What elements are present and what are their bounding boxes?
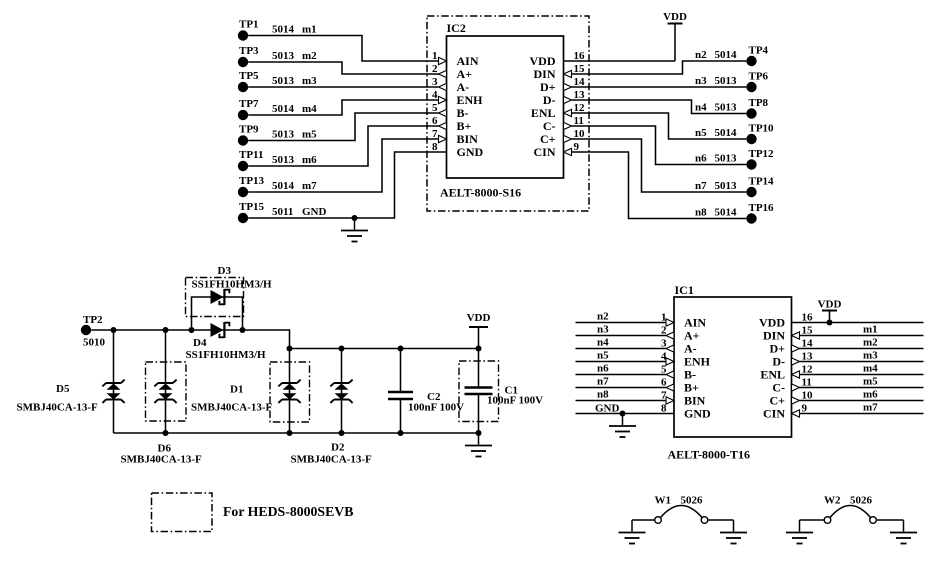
wire VDD rail: [290, 348, 479, 350]
IC2 pin 11 C- (number, arrow, name): [543, 115, 584, 133]
svg-text:TP15: TP15: [239, 201, 265, 213]
junction D1 bottom: [287, 430, 293, 436]
svg-text:TP2: TP2: [83, 314, 103, 326]
wire IC2 pin 16 to VDD: [564, 60, 676, 62]
svg-text:5013: 5013: [715, 75, 738, 87]
svg-text:14: 14: [802, 338, 814, 350]
TVS diode D1 branch wire: [289, 349, 291, 434]
jumper W1 5026: [655, 495, 708, 524]
svg-text:B-: B-: [684, 368, 696, 382]
svg-text:VDD: VDD: [759, 316, 785, 330]
svg-text:SS1FH10HM3/H: SS1FH10HM3/H: [192, 279, 273, 291]
svg-text:D-: D-: [772, 355, 785, 369]
svg-text:5014: 5014: [272, 180, 295, 192]
diode D4 SS1FH10HM3/H: [211, 322, 230, 338]
svg-text:W2: W2: [824, 495, 841, 507]
svg-text:m2: m2: [302, 50, 317, 62]
IC2 pin 6 B+ (number, arrow, name): [432, 115, 472, 133]
net label n6 5013: [695, 153, 737, 165]
IC1 pin 14 D+ (number, arrow, name): [769, 338, 813, 356]
IC2 pin 10 C+ (number, arrow, name): [540, 128, 585, 146]
svg-text:TP13: TP13: [239, 175, 265, 187]
svg-text:3: 3: [661, 338, 667, 350]
wire n7 into IC1 pin 6: [576, 387, 667, 389]
ground symbol below GND wire: [341, 218, 368, 242]
IC1 pin 15 DIN (number, arrow, name): [763, 325, 813, 343]
wire m6: TP11 to IC2 pin 6: [248, 126, 438, 166]
junction on IC1 GND wire: [620, 411, 626, 417]
test point TP2 pad with label 5010: [81, 314, 106, 349]
IC1 pin 11 C- (number, arrow, name): [772, 377, 812, 395]
svg-text:TP4: TP4: [749, 45, 769, 57]
wire W2 left leg: [800, 519, 825, 521]
svg-text:16: 16: [802, 312, 814, 324]
svg-text:9: 9: [802, 403, 808, 415]
wire IC1 pin 16 VDD net: [792, 322, 924, 324]
svg-text:C-: C-: [543, 119, 556, 133]
svg-text:GND: GND: [595, 403, 620, 415]
net label n5 5014: [695, 127, 737, 139]
ground symbol W1 left: [619, 520, 646, 544]
wire m3 from IC1 pin 13: [800, 361, 924, 363]
test point TP5 pad with labels 5013 m3: [238, 70, 317, 92]
IC2 pin 1 AIN (number, arrow, name): [432, 50, 479, 68]
junction VDD tap on pin 16 wire: [827, 320, 833, 326]
test point TP13 pad with labels 5014 m7: [238, 175, 317, 197]
VDD power symbol at IC1: [818, 299, 842, 323]
IC1 pin 16 VDD (number, arrow, name): [759, 312, 813, 330]
svg-text:m1: m1: [302, 23, 317, 35]
svg-text:ENL: ENL: [760, 368, 785, 382]
IC1 pin 1 AIN (number, arrow, name): [661, 312, 706, 330]
IC1 pin 13 D- (number, arrow, name): [772, 351, 813, 369]
capacitor C1: [465, 388, 493, 395]
wire n2 into IC1 pin 1: [576, 322, 667, 324]
junction D3 left: [189, 327, 195, 333]
svg-text:B+: B+: [684, 381, 699, 395]
IC1 pin 7 BIN (number, arrow, name): [661, 390, 706, 408]
ground symbol bottom rail: [465, 433, 492, 457]
TVS diode D2: [330, 380, 352, 403]
wire m7 from IC1 pin 9: [800, 413, 924, 415]
svg-text:D-: D-: [543, 93, 556, 107]
svg-text:2: 2: [661, 325, 667, 337]
test point TP8 pad: [746, 97, 768, 119]
wire n3: IC2 pin 14 to TP6: [572, 86, 747, 88]
svg-text:ENH: ENH: [457, 93, 484, 107]
wire n7: IC2 pin 10 to TP14: [572, 139, 747, 192]
IC1 pin 10 C+ (number, arrow, name): [769, 390, 813, 408]
svg-text:n3: n3: [597, 324, 609, 336]
svg-text:SMBJ40CA-13-F: SMBJ40CA-13-F: [191, 402, 273, 414]
svg-text:5011: 5011: [272, 206, 293, 218]
junction D2 top: [339, 346, 345, 352]
D1 dashed highlight box: [270, 362, 310, 422]
C1 dashed highlight box: [459, 361, 499, 422]
wire n8 into IC1 pin 7: [576, 400, 667, 402]
svg-text:5014: 5014: [715, 127, 738, 139]
svg-text:VDD: VDD: [663, 11, 687, 23]
svg-text:2: 2: [432, 63, 438, 75]
svg-text:m5: m5: [302, 128, 317, 140]
svg-text:5013: 5013: [272, 75, 295, 87]
svg-text:6: 6: [661, 377, 667, 389]
svg-text:TP11: TP11: [239, 149, 263, 161]
svg-text:5014: 5014: [715, 207, 738, 219]
svg-text:n8: n8: [597, 389, 609, 401]
wire m1 from IC1 pin 15: [800, 335, 924, 337]
IC1 pin 8 GND (number, arrow, name): [661, 403, 711, 421]
wire m5 from IC1 pin 11: [800, 387, 924, 389]
svg-text:n5: n5: [695, 127, 707, 139]
ground symbol at IC1 pin 8: [609, 414, 636, 438]
test point TP7 pad with labels 5014 m4: [238, 98, 317, 120]
IC2 pin 5 B- (number, arrow, name): [432, 102, 469, 120]
svg-text:16: 16: [574, 50, 586, 62]
svg-text:8: 8: [661, 403, 667, 415]
svg-text:n4: n4: [597, 337, 609, 349]
svg-text:5026: 5026: [850, 495, 873, 507]
wire bottom ground rail: [114, 432, 479, 434]
test point TP3 pad with labels 5013 m2: [238, 45, 317, 67]
wire m4 from IC1 pin 12: [800, 374, 924, 376]
svg-text:DIN: DIN: [533, 67, 555, 81]
TVS diode D6: [154, 380, 176, 403]
svg-text:TP6: TP6: [749, 71, 769, 83]
VDD power symbol above IC2: [663, 11, 687, 61]
svg-text:5014: 5014: [715, 49, 738, 61]
svg-text:TP16: TP16: [749, 202, 775, 214]
svg-text:CIN: CIN: [763, 407, 785, 421]
svg-text:D2: D2: [331, 442, 345, 454]
svg-text:AIN: AIN: [684, 316, 706, 330]
wire m3: TP5 to IC2 pin 3: [248, 86, 438, 88]
IC2 outer dashed boundary box: [427, 16, 589, 211]
IC2 pin 9 CIN (number, arrow, name): [533, 141, 579, 159]
test point TP15 pad with labels 5011 GND: [238, 201, 327, 223]
TVS diode D5: [102, 380, 124, 403]
svg-text:5014: 5014: [272, 103, 295, 115]
net label n7 5013: [695, 180, 737, 192]
svg-text:SMBJ40CA-13-F: SMBJ40CA-13-F: [121, 454, 203, 466]
svg-text:CIN: CIN: [533, 145, 555, 159]
test point TP14 pad: [746, 176, 774, 198]
IC2 body rectangle: [447, 36, 564, 178]
TVS diode D1: [278, 380, 300, 403]
svg-text:TP8: TP8: [749, 97, 769, 109]
jumper W2 5026: [824, 495, 876, 524]
svg-text:11: 11: [802, 377, 812, 389]
IC1 pin 5 B- (number, arrow, name): [661, 364, 696, 382]
IC2 pin 3 A- (number, arrow, name): [432, 76, 469, 94]
test point TP10 pad: [746, 123, 774, 145]
svg-text:SS1FH10HM3/H: SS1FH10HM3/H: [186, 349, 267, 361]
svg-text:W1: W1: [655, 495, 672, 507]
svg-text:B-: B-: [457, 106, 469, 120]
test point TP6 pad: [746, 71, 768, 93]
svg-text:5: 5: [432, 102, 438, 114]
net label n2 5014: [695, 49, 737, 61]
svg-text:5013: 5013: [715, 153, 738, 165]
wire n4: IC2 pin 13 to TP8: [572, 100, 747, 114]
svg-text:GND: GND: [457, 145, 484, 159]
svg-text:5013: 5013: [272, 154, 295, 166]
svg-text:VDD: VDD: [818, 299, 842, 311]
svg-text:B+: B+: [457, 119, 472, 133]
svg-text:10: 10: [574, 128, 586, 140]
IC2 pin 16 VDD (number, arrow, name): [530, 50, 586, 68]
junction D1 top: [287, 346, 293, 352]
test point TP4 pad: [746, 45, 768, 67]
svg-text:TP3: TP3: [239, 45, 259, 57]
svg-text:D+: D+: [540, 80, 556, 94]
IC2 pin 4 ENH (number, arrow, name): [432, 89, 483, 107]
svg-text:BIN: BIN: [457, 132, 479, 146]
svg-text:n2: n2: [597, 311, 609, 323]
junction D5 top: [111, 327, 117, 333]
svg-text:m4: m4: [302, 103, 317, 115]
svg-text:15: 15: [574, 63, 586, 75]
svg-text:A+: A+: [684, 329, 700, 343]
ground symbol W2 right: [890, 520, 917, 544]
wire W1 right leg: [708, 519, 734, 521]
svg-text:AIN: AIN: [457, 54, 479, 68]
svg-text:5026: 5026: [681, 495, 704, 507]
D3 dashed highlight box: [186, 278, 244, 317]
svg-text:IC1: IC1: [675, 283, 694, 297]
svg-text:TP14: TP14: [749, 176, 775, 188]
junction C1 top: [476, 346, 482, 352]
svg-text:5013: 5013: [715, 102, 738, 114]
svg-text:11: 11: [574, 115, 584, 127]
junction D6 top: [163, 327, 169, 333]
svg-text:5013: 5013: [715, 180, 738, 192]
wire m4: TP7 to IC2 pin 4: [248, 100, 438, 115]
test point TP12 pad: [746, 148, 774, 170]
svg-text:AELT-8000-T16: AELT-8000-T16: [668, 448, 750, 462]
IC1 pin 12 ENL (number, arrow, name): [760, 364, 813, 382]
svg-text:TP1: TP1: [239, 18, 259, 30]
wire GND net into IC1 pin 8: [576, 413, 675, 415]
svg-text:m1: m1: [863, 324, 878, 336]
net label n4 5013: [695, 102, 737, 114]
test point TP1 pad with labels 5014 m1: [238, 18, 317, 40]
svg-text:14: 14: [574, 76, 586, 88]
wire n3 into IC1 pin 2: [576, 335, 667, 337]
IC2 pin 8 GND (number, arrow, name): [432, 141, 484, 159]
svg-text:13: 13: [802, 351, 814, 363]
svg-text:5010: 5010: [83, 337, 106, 349]
svg-text:D5: D5: [56, 383, 70, 395]
TVS diode D2 branch wire: [341, 349, 343, 434]
svg-text:m7: m7: [302, 180, 317, 192]
svg-text:n6: n6: [597, 363, 609, 375]
svg-text:SMBJ40CA-13-F: SMBJ40CA-13-F: [291, 454, 373, 466]
wire n6 into IC1 pin 5: [576, 374, 667, 376]
IC2 pin 7 BIN (number, arrow, name): [432, 128, 478, 146]
wire m6 from IC1 pin 10: [800, 400, 924, 402]
svg-text:n7: n7: [695, 180, 707, 192]
svg-text:3: 3: [432, 76, 438, 88]
wire W2 right leg: [876, 519, 903, 521]
svg-text:C-: C-: [772, 381, 785, 395]
wire n6: IC2 pin 11 to TP12: [572, 126, 747, 165]
wire VDD stub to rail and capacitor C1 branch: [478, 327, 480, 433]
wire m7: TP13 to IC2 pin 7: [248, 139, 438, 192]
wire m5: TP9 to IC2 pin 5: [248, 113, 438, 141]
svg-text:D4: D4: [193, 337, 207, 349]
svg-text:A+: A+: [457, 67, 473, 81]
legend dashed box: [152, 493, 213, 532]
wire n2: IC2 pin 15 to TP4: [572, 61, 747, 74]
svg-text:C+: C+: [769, 394, 785, 408]
svg-text:GND: GND: [684, 407, 711, 421]
svg-text:8: 8: [432, 141, 438, 153]
svg-text:n4: n4: [695, 102, 707, 114]
svg-text:n7: n7: [597, 376, 609, 388]
wire m1: TP1 to IC2 pin 1: [248, 36, 438, 62]
net label n8 5014: [695, 207, 737, 219]
svg-text:5: 5: [661, 364, 667, 376]
junction C2 top: [398, 346, 404, 352]
svg-text:m3: m3: [302, 75, 317, 87]
test point TP11 pad with labels 5013 m6: [238, 149, 317, 171]
svg-text:15: 15: [802, 325, 814, 337]
svg-text:A-: A-: [684, 342, 697, 356]
TVS diode D5 branch wire: [113, 330, 115, 433]
junction D2 bottom: [339, 430, 345, 436]
net label n3 5013: [695, 75, 737, 87]
wire n8: IC2 pin 9 to TP16: [572, 152, 747, 219]
IC2 pin 15 DIN (number, arrow, name): [533, 63, 585, 81]
svg-text:7: 7: [432, 128, 438, 140]
wire n5: IC2 pin 12 to TP10: [572, 113, 747, 139]
test point TP16 pad: [746, 202, 774, 224]
svg-text:n8: n8: [695, 207, 707, 219]
junction D3 right: [240, 327, 246, 333]
svg-text:C+: C+: [540, 132, 556, 146]
VDD power symbol bottom left: [467, 312, 491, 327]
svg-text:VDD: VDD: [530, 54, 556, 68]
IC2 pin 2 A+ (number, arrow, name): [432, 63, 472, 81]
svg-text:m4: m4: [863, 363, 878, 375]
svg-text:1: 1: [432, 50, 438, 62]
svg-text:m3: m3: [863, 350, 878, 362]
IC1 pin 6 B+ (number, arrow, name): [661, 377, 699, 395]
svg-text:ENH: ENH: [684, 355, 711, 369]
wire m2: TP3 to IC2 pin 2: [248, 62, 438, 74]
junction D6 bottom: [163, 430, 169, 436]
svg-text:5013: 5013: [272, 128, 295, 140]
svg-text:n6: n6: [695, 153, 707, 165]
capacitor C2: [388, 392, 413, 399]
svg-text:100nF 100V: 100nF 100V: [487, 395, 543, 407]
wire n5 into IC1 pin 4: [576, 361, 667, 363]
IC2 pin 13 D- (number, arrow, name): [543, 89, 585, 107]
svg-text:5014: 5014: [272, 23, 295, 35]
svg-text:9: 9: [574, 141, 580, 153]
svg-text:12: 12: [802, 364, 814, 376]
svg-text:A-: A-: [457, 80, 470, 94]
svg-text:10: 10: [802, 390, 814, 402]
svg-text:D3: D3: [218, 265, 232, 277]
wire D3 bypass branch: [192, 297, 243, 330]
IC2 pin 12 ENL (number, arrow, name): [531, 102, 585, 120]
diode D3 SS1FH10HM3/H: [211, 289, 230, 305]
IC1 body rectangle: [674, 297, 792, 437]
svg-text:m2: m2: [863, 337, 878, 349]
junction on GND wire: [352, 215, 358, 221]
svg-text:m5: m5: [863, 376, 878, 388]
svg-text:12: 12: [574, 102, 586, 114]
ground symbol W1 right: [720, 520, 747, 544]
svg-text:TP5: TP5: [239, 70, 259, 82]
svg-text:TP10: TP10: [749, 123, 775, 135]
svg-text:6: 6: [432, 115, 438, 127]
svg-text:D+: D+: [769, 342, 785, 356]
wire W1 left leg: [632, 519, 655, 521]
svg-text:m6: m6: [302, 154, 317, 166]
svg-text:D1: D1: [230, 384, 243, 396]
svg-text:For HEDS-8000SEVB: For HEDS-8000SEVB: [223, 504, 353, 519]
svg-text:13: 13: [574, 89, 586, 101]
svg-text:TP7: TP7: [239, 98, 259, 110]
svg-text:GND: GND: [302, 206, 327, 218]
IC1 pin 3 A- (number, arrow, name): [661, 338, 697, 356]
svg-text:m6: m6: [863, 389, 878, 401]
svg-text:n5: n5: [597, 350, 609, 362]
capacitor C2 branch wire: [400, 349, 402, 434]
IC1 pin 2 A+ (number, arrow, name): [661, 325, 700, 343]
svg-text:BIN: BIN: [684, 394, 706, 408]
svg-text:AELT-8000-S16: AELT-8000-S16: [440, 186, 521, 200]
svg-text:100nF 100V: 100nF 100V: [408, 402, 464, 414]
svg-text:m7: m7: [863, 402, 878, 414]
junction C2 bottom: [398, 430, 404, 436]
svg-text:TP12: TP12: [749, 148, 775, 160]
svg-text:SMBJ40CA-13-F: SMBJ40CA-13-F: [17, 402, 99, 414]
IC1 pin 9 CIN (number, arrow, name): [763, 403, 808, 421]
test point TP9 pad with labels 5013 m5: [238, 123, 317, 145]
svg-text:DIN: DIN: [763, 329, 785, 343]
wire GND net: TP15 to IC2 pin 8: [248, 152, 446, 218]
wire m2 from IC1 pin 14: [800, 348, 924, 350]
svg-text:VDD: VDD: [467, 312, 491, 324]
junction C1 bottom: [476, 430, 482, 436]
svg-text:TP9: TP9: [239, 123, 259, 135]
IC2 pin 14 D+ (number, arrow, name): [540, 76, 585, 94]
svg-text:4: 4: [432, 89, 438, 101]
svg-text:IC2: IC2: [447, 21, 466, 35]
IC1 pin 4 ENH (number, arrow, name): [661, 351, 711, 369]
svg-text:n2: n2: [695, 49, 707, 61]
TVS diode D6 branch wire: [165, 330, 167, 433]
wire n4 into IC1 pin 3: [576, 348, 667, 350]
wire top rail from TP2 through D4: [91, 330, 289, 349]
svg-text:5013: 5013: [272, 50, 295, 62]
svg-text:ENL: ENL: [531, 106, 556, 120]
svg-text:n3: n3: [695, 75, 707, 87]
ground symbol W2 left: [786, 520, 813, 544]
D6 dashed highlight box: [146, 362, 187, 421]
